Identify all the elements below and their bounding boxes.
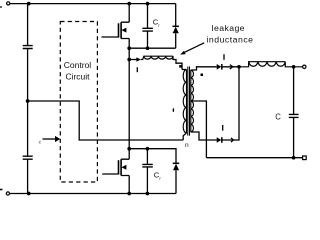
diode D4 bottom antiparallel xyxy=(173,162,179,164)
output terminal plus xyxy=(303,65,306,68)
output terminal minus xyxy=(303,156,307,160)
wire leakage to primary xyxy=(173,56,182,69)
svg-text:Control: Control xyxy=(64,60,92,70)
transformer secondary winding xyxy=(191,70,194,132)
polarity dot secondary xyxy=(201,74,204,77)
label I primary xyxy=(136,67,138,72)
svg-text:C: C xyxy=(275,112,281,121)
node dot output minus xyxy=(292,156,296,160)
current arrow D1 xyxy=(230,65,233,69)
node dot top rail drain xyxy=(127,2,131,6)
wire D2 to node A xyxy=(222,67,239,140)
current arrow D2 xyxy=(231,138,234,142)
wire bottom rail xyxy=(10,193,176,195)
current arrow primary xyxy=(131,59,137,61)
transistor Q1 top MOSFET xyxy=(118,23,120,37)
diode D2 rectifier bottom xyxy=(217,137,222,143)
svg-text:n: n xyxy=(185,142,189,149)
node dot output plus xyxy=(292,65,296,69)
node dot Q2 drain xyxy=(127,147,131,151)
svg-text:r: r xyxy=(158,23,160,28)
input minus mark xyxy=(0,189,2,191)
wire top rail xyxy=(10,3,176,5)
inductor leakage xyxy=(141,56,173,59)
diode D3 top antiparallel xyxy=(175,4,177,27)
capacitor Cr top snubber xyxy=(147,4,149,28)
input plus mark xyxy=(0,6,2,8)
wire primary bottom to return xyxy=(183,133,186,140)
node dot bottom rail left xyxy=(27,192,31,196)
wire left column lower xyxy=(27,160,29,194)
input terminal top xyxy=(7,2,10,5)
capacitor C1 input divider upper xyxy=(23,46,33,49)
label 1 xyxy=(172,108,174,111)
wire drain node line xyxy=(129,149,176,163)
node dot bottom rail source xyxy=(127,192,131,196)
node dot bottom rail Cf xyxy=(146,192,150,196)
control circuit box xyxy=(60,22,97,183)
wire cap midpoint to primary return xyxy=(28,101,184,140)
svg-text:c: c xyxy=(39,141,42,146)
capacitor C output xyxy=(293,67,295,114)
input terminal bottom xyxy=(6,192,9,195)
wire midpoint vertical xyxy=(128,48,130,149)
wire Q2 drain xyxy=(128,149,130,160)
wire Q2 source xyxy=(128,176,130,194)
capacitor C2 input divider lower xyxy=(23,156,33,159)
wire center tap xyxy=(191,101,207,158)
wire Q1 source to node xyxy=(128,39,130,49)
svg-text:inductance: inductance xyxy=(206,34,253,44)
signal arrow into control box xyxy=(43,138,56,140)
wire secondary bottom lead xyxy=(191,132,217,140)
wire secondary top lead xyxy=(191,67,217,70)
diode D1 rectifier top xyxy=(217,64,222,70)
inductor output filter xyxy=(239,62,302,67)
label I D2 xyxy=(222,125,224,131)
transformer primary winding xyxy=(182,69,187,133)
node dot Cf top xyxy=(146,147,150,151)
pointer arrow leakage xyxy=(185,43,205,53)
node dot Q1 source xyxy=(127,46,131,50)
wire node line top xyxy=(129,47,176,49)
wire D1 to node A xyxy=(222,66,239,68)
svg-text:leakage: leakage xyxy=(212,23,245,33)
node dot top rail Cr xyxy=(146,2,150,6)
wire return rail xyxy=(206,157,302,159)
svg-text:Circuit: Circuit xyxy=(65,72,90,82)
node dot leakage tap xyxy=(127,58,131,62)
wire left column middle xyxy=(27,49,29,156)
wire Q1 drain to rail xyxy=(128,4,130,23)
node dot A xyxy=(237,65,241,69)
label I D1 xyxy=(223,54,225,60)
wire gate drive upper xyxy=(102,36,119,38)
transformer core xyxy=(188,67,190,136)
svg-text:r: r xyxy=(159,176,161,181)
capacitor Cf bottom snubber xyxy=(146,149,148,164)
node dot top rail left xyxy=(27,2,31,6)
transistor Q2 bottom MOSFET xyxy=(118,160,120,174)
polarity dot primary xyxy=(179,65,182,68)
wire gate drive lower xyxy=(102,173,118,175)
node dot Cr bottom xyxy=(146,46,150,50)
wire left column upper xyxy=(27,4,29,46)
node dot cap midpoint xyxy=(26,99,30,103)
